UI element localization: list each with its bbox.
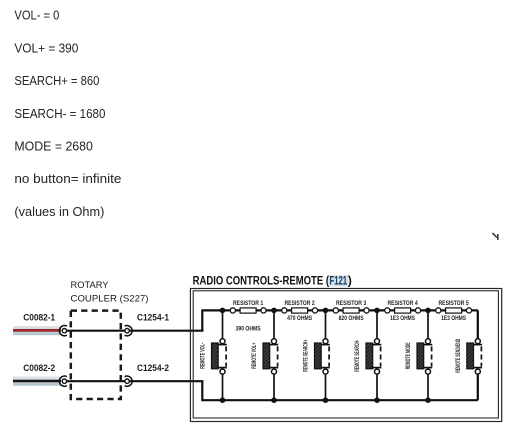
resistor R2 (470 OHMS) — [282, 301, 318, 322]
svg-text:VOL+ = 390: VOL+ = 390 — [14, 41, 78, 55]
wire C0082-2 (gray band, black core) — [13, 377, 61, 386]
svg-text:C0082-2: C0082-2 — [23, 362, 55, 373]
svg-text:C1254-1: C1254-1 — [137, 312, 169, 323]
junction node bottom of branch 1 — [220, 397, 226, 403]
junction node bottom of branch 3 — [323, 397, 329, 403]
resistor R5 (1E3 OHMS) — [436, 301, 472, 322]
svg-text:REMOTE SEARCH-: REMOTE SEARCH- — [355, 340, 361, 372]
connector C1254-1 — [125, 326, 133, 336]
radio controls module F121 outer box — [190, 289, 501, 422]
resistor R4 (1E3 OHMS) — [385, 301, 421, 322]
bottom bus — [202, 399, 478, 401]
svg-text:470 OHMS: 470 OHMS — [287, 316, 312, 322]
svg-text:MODE = 2680: MODE = 2680 — [14, 140, 93, 154]
svg-text:820 OHMS: 820 OHMS — [339, 316, 364, 322]
svg-text:(values in Ohm): (values in Ohm) — [14, 205, 104, 219]
svg-text:390 OHMS: 390 OHMS — [236, 326, 261, 332]
svg-text:REMOTE SEND/END: REMOTE SEND/END — [456, 338, 462, 372]
junction node top of branch 4 — [374, 308, 380, 314]
wire drop to bottom bus — [201, 381, 203, 401]
connector C0082-2 — [59, 376, 66, 386]
svg-text:no button= infinite: no button= infinite — [14, 172, 121, 186]
svg-text:REMOTE SEARCH+: REMOTE SEARCH+ — [304, 340, 310, 372]
switch SW4 REMOTE SEARCH- — [355, 310, 381, 400]
svg-text:REMOTE MODE: REMOTE MODE — [406, 342, 412, 369]
rotary coupler S227 dashed box — [71, 311, 121, 399]
connector C0082-1 — [59, 326, 67, 336]
svg-text:C0082-1: C0082-1 — [23, 312, 55, 323]
junction node top of branch 5 — [425, 308, 431, 314]
svg-text:F121: F121 — [330, 273, 348, 287]
label ROTARY COUPLER (S227) — [71, 280, 149, 305]
svg-text:SEARCH- = 1680: SEARCH- = 1680 — [14, 107, 105, 121]
svg-text:RESISTOR 3: RESISTOR 3 — [336, 301, 367, 307]
svg-text:RESISTOR 5: RESISTOR 5 — [439, 301, 470, 307]
svg-text:COUPLER (S227): COUPLER (S227) — [71, 294, 149, 305]
junction node top of branch 3 — [323, 308, 329, 314]
junction node bottom of branch 4 — [374, 397, 380, 403]
wire row 1 (C0082-1 to F121) — [63, 330, 203, 332]
switch SW5 REMOTE MODE — [406, 310, 432, 400]
top bus — [202, 309, 478, 311]
right bus edge — [477, 310, 479, 400]
junction node top of branch 2 — [271, 308, 277, 314]
svg-text:1E3 OHMS: 1E3 OHMS — [390, 316, 415, 322]
connector C1254-2 — [125, 376, 132, 386]
title RADIO CONTROLS-REMOTE (F121) — [193, 273, 352, 287]
svg-text:): ) — [348, 273, 352, 287]
junction node top of branch 1 — [220, 308, 226, 314]
switch SW1 REMOTE VOL- — [201, 310, 227, 400]
switch SW6 REMOTE SEND/END — [456, 310, 482, 400]
svg-text:VOL- = 0: VOL- = 0 — [14, 9, 59, 23]
svg-text:1E3 OHMS: 1E3 OHMS — [441, 316, 466, 322]
switch SW3 REMOTE SEARCH+ — [304, 310, 330, 400]
cursor mark — [492, 233, 497, 240]
svg-text:RESISTOR 4: RESISTOR 4 — [388, 301, 419, 307]
resistor R3 (820 OHMS) — [333, 301, 369, 322]
junction node bottom of branch 2 — [271, 397, 277, 403]
svg-text:ROTARY: ROTARY — [71, 280, 110, 291]
svg-text:RESISTOR 2: RESISTOR 2 — [285, 301, 316, 307]
switch SW2 REMOTE VOL+ — [252, 310, 278, 400]
svg-text:C1254-2: C1254-2 — [137, 362, 169, 373]
wire riser to top bus — [201, 309, 203, 330]
junction node bottom of branch 5 — [425, 397, 431, 403]
svg-text:RESISTOR 1: RESISTOR 1 — [233, 301, 264, 307]
wire row 2 (C0082-2 to F121) — [63, 380, 203, 382]
svg-text:RADIO CONTROLS-REMOTE (: RADIO CONTROLS-REMOTE ( — [193, 273, 330, 287]
svg-text:REMOTE VOL-: REMOTE VOL- — [201, 343, 207, 369]
resistor R1 (390 OHMS) — [230, 301, 266, 333]
svg-text:SEARCH+ = 860: SEARCH+ = 860 — [14, 74, 99, 88]
svg-text:REMOTE VOL+: REMOTE VOL+ — [252, 343, 258, 369]
wire C0082-1 (gray band, red core) — [13, 326, 61, 335]
radio controls module F121 inner box — [193, 291, 498, 418]
